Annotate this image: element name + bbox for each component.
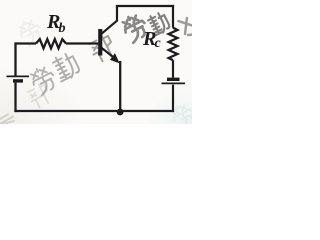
- watermark char bu (behind transistor): [87, 33, 117, 64]
- watermark char dou (mid-left): [51, 51, 82, 83]
- transistor Q1 emitter lead: [101, 47, 114, 57]
- svg-text:b: b: [59, 21, 66, 36]
- watermark char lao (top-center): [120, 12, 150, 44]
- wire left vertical: [14, 42, 16, 75]
- wire base left segment: [16, 42, 37, 44]
- label Rc: [142, 28, 162, 51]
- resistor Rc: [169, 28, 178, 61]
- wire left lower vertical: [14, 83, 16, 113]
- battery V1 negative plate: [13, 79, 23, 82]
- transistor Q1 base bar: [98, 29, 102, 56]
- transistor Q1 emitter arrowhead: [110, 53, 120, 63]
- corner tint bottom-left: [0, 0, 1, 1]
- wire top: [116, 5, 174, 7]
- resistor Rb: [36, 39, 66, 48]
- svg-text:c: c: [155, 36, 162, 51]
- wire base right segment: [66, 42, 99, 44]
- battery V2 negative plate: [167, 78, 180, 81]
- transistor Q1 collector lead: [101, 5, 117, 34]
- corner tint bottom-right: [0, 0, 1, 1]
- watermark streak (bottom-left corner): [0, 115, 14, 125]
- battery V1 positive plate: [7, 75, 30, 77]
- wire emitter vertical: [119, 61, 121, 111]
- wire right mid vertical: [172, 60, 174, 77]
- wire bottom left segment: [14, 110, 120, 112]
- watermark char partial (right edge): [178, 16, 197, 39]
- watermark char faint (bottom-left): [26, 82, 52, 109]
- wire bottom right segment: [120, 110, 174, 112]
- watermark char lao (mid-left): [28, 64, 59, 97]
- wire right lower vertical: [172, 85, 174, 113]
- watermark char faint (top-left): [16, 17, 45, 47]
- battery V2 positive plate: [162, 82, 186, 84]
- label Rb: [46, 11, 66, 36]
- watermark char dou (top-right): [146, 10, 171, 36]
- junction node dot: [117, 109, 124, 116]
- wire right upper vertical: [172, 5, 174, 28]
- watermark char faint (bottom-right): [169, 101, 198, 131]
